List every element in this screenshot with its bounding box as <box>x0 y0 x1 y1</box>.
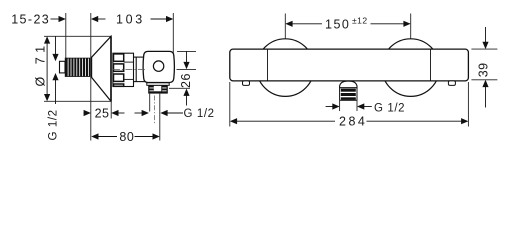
outlet right extension line <box>159 94 161 141</box>
svg-text:Ø 71: Ø 71 <box>34 41 48 86</box>
nut hex lines <box>124 61 134 63</box>
dimension 39 bottom tick <box>471 79 497 81</box>
outlet thread <box>148 85 168 93</box>
escutcheon cone <box>91 36 111 101</box>
outlet right extension line (front view) <box>356 101 358 111</box>
dimension 103 left arrow <box>91 16 106 22</box>
extension line wall plane <box>65 13 67 61</box>
outlet collar <box>147 83 169 86</box>
svg-text:G 1/2: G 1/2 <box>184 108 215 120</box>
G 1/2 wall thread upper arrow <box>52 36 58 61</box>
G 1/2 front leader right arrow <box>357 103 372 109</box>
dimension 26 top arrow <box>183 51 189 69</box>
extension line right pipe center <box>410 14 412 40</box>
handle top extension tick <box>177 50 196 52</box>
dimension 25 left arrow <box>84 110 91 116</box>
dimension 25 right arrow and chain to outlet <box>111 110 149 116</box>
diameter 71 top extension line <box>44 35 111 37</box>
dimension 150 +/-12 <box>285 21 410 27</box>
nut knurl rings <box>114 54 124 86</box>
dimension 284 <box>230 118 469 124</box>
union nut <box>113 53 134 86</box>
outlet centerline dashed <box>154 96 156 124</box>
dimension 80 <box>91 133 160 139</box>
svg-text:26: 26 <box>179 73 193 88</box>
axis extension tick <box>177 69 197 71</box>
svg-text:80: 80 <box>119 130 134 144</box>
right escutcheon circle <box>382 39 440 97</box>
dimension 103 right arrow <box>151 16 174 22</box>
left escutcheon circle <box>257 39 315 97</box>
extension line handle front face <box>172 13 174 57</box>
centerline of valve axis <box>113 69 146 71</box>
svg-text:G 1/2: G 1/2 <box>374 103 405 115</box>
extension line bar right end <box>467 82 469 127</box>
G 1/2 outlet leader arrow <box>160 110 183 116</box>
bar right joint line <box>430 49 432 80</box>
outlet thread bands <box>340 88 357 101</box>
left underside tab <box>243 81 250 86</box>
svg-text:284: 284 <box>339 115 367 129</box>
handle center circle <box>153 61 163 71</box>
supply pipe stub <box>60 61 66 73</box>
dimension 15-23 arrow <box>51 16 66 22</box>
pipe thread (hatched) <box>65 58 90 77</box>
valve neck <box>134 57 146 82</box>
extension line escutcheon back edge <box>90 13 92 141</box>
svg-text:±12: ±12 <box>352 16 368 26</box>
svg-text:25: 25 <box>95 107 110 121</box>
G 1/2 front leader left arrow <box>326 103 340 109</box>
svg-text:39: 39 <box>476 62 490 77</box>
svg-text:150: 150 <box>325 17 350 31</box>
outlet shoulder extension tick <box>169 87 190 89</box>
outlet dome cap <box>340 81 357 88</box>
outlet left extension line <box>149 94 151 112</box>
diameter 71 dimension line with arrows <box>44 36 50 101</box>
extension line bar left end <box>229 82 231 127</box>
handle (rounded square) <box>143 51 174 82</box>
dimension 26 bottom arrow <box>183 89 189 106</box>
diameter 71 bottom extension line <box>44 100 111 102</box>
svg-text:15-23: 15-23 <box>11 13 50 27</box>
outlet left extension line (front view) <box>339 101 341 111</box>
svg-text:G 1/2: G 1/2 <box>48 109 60 140</box>
extension line left pipe center <box>284 14 286 40</box>
G 1/2 wall thread lower arrow <box>52 73 58 104</box>
dimension 39 bottom arrow <box>482 80 488 108</box>
escutcheon face line <box>110 36 112 101</box>
dimension 39 top tick <box>471 48 497 50</box>
bar left joint line <box>267 49 269 80</box>
dimension 39 top arrow <box>482 27 488 49</box>
right underside tab <box>448 81 455 86</box>
svg-text:103: 103 <box>116 13 145 27</box>
extension line escutcheon face <box>110 102 112 119</box>
thermostat bar body <box>230 49 469 81</box>
escutcheon back edge <box>90 57 92 77</box>
